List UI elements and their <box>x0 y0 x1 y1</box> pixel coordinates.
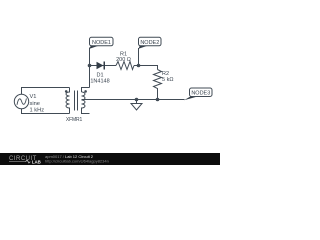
label D1 value <box>90 73 109 85</box>
label V1 value <box>30 94 45 114</box>
svg-text:http://circuitlab.com/c/64lagp: http://circuitlab.com/c/64lagpy8234n <box>45 159 109 164</box>
svg-text:NODE3: NODE3 <box>191 91 210 97</box>
ground <box>131 100 142 111</box>
svg-text:V1: V1 <box>30 94 37 100</box>
transformer primary phase dot <box>65 90 68 93</box>
wire NODE2 stem <box>138 48 140 66</box>
node NODE2 junction dot <box>137 64 141 68</box>
svg-text:XFMR1: XFMR1 <box>66 117 83 123</box>
node NODE2 flag <box>139 37 162 49</box>
svg-text:1 kHz: 1 kHz <box>30 108 45 114</box>
transformer XFMR1 secondary winding (center-tapped) <box>82 88 90 114</box>
svg-text:NODE2: NODE2 <box>140 40 159 46</box>
transformer secondary phase dot <box>84 90 87 93</box>
svg-text:sine: sine <box>30 101 40 107</box>
svg-text:200 Ω: 200 Ω <box>116 57 131 63</box>
transformer XFMR1 primary winding <box>66 88 70 114</box>
label R2 value <box>162 71 173 83</box>
transformer XFMR1 core <box>75 91 78 111</box>
wire bottom primary loop <box>22 109 70 114</box>
svg-text:1N4148: 1N4148 <box>90 79 109 85</box>
diode D1 <box>97 62 106 70</box>
ground junction dot <box>135 98 139 102</box>
R2 bottom junction dot <box>156 98 160 102</box>
wire rail top from node A to R2 <box>90 65 117 67</box>
wire secondary top to node A <box>89 48 91 88</box>
wire R1 to R2 <box>134 66 158 70</box>
node NODE1 flag <box>90 37 114 49</box>
node A junction dot <box>88 64 92 68</box>
footer bar <box>0 153 220 165</box>
voltage source V1 <box>14 94 28 108</box>
resistor R1 <box>116 62 134 70</box>
node NODE3 flag <box>184 88 212 100</box>
label R1 value <box>116 52 131 64</box>
svg-text:LAB: LAB <box>32 159 41 164</box>
footer logo LAB <box>9 159 41 164</box>
wire top primary loop <box>22 88 70 95</box>
svg-text:5 kΩ: 5 kΩ <box>162 77 173 83</box>
resistor R2 <box>154 70 162 100</box>
wire center tap rail <box>82 99 185 101</box>
svg-text:NODE1: NODE1 <box>92 40 111 46</box>
